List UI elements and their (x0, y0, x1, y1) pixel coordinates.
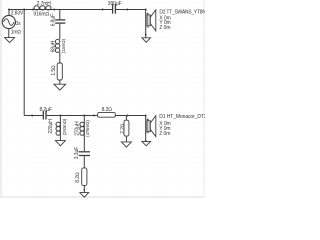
svg-text:2.7mH: 2.7mH (37, 1, 52, 7)
svg-text:D1 HT_Monacor_DT25: D1 HT_Monacor_DT25 (159, 114, 205, 120)
svg-text:Z 0m: Z 0m (159, 25, 170, 31)
svg-text:6.8µF: 6.8µF (51, 14, 57, 26)
svg-text:Z 0m: Z 0m (159, 131, 170, 137)
svg-text:220µH: 220µH (48, 119, 54, 134)
svg-text:0s: 0s (15, 21, 21, 27)
svg-text:2.2Ω: 2.2Ω (120, 123, 126, 134)
svg-text:(13mΩ): (13mΩ) (61, 39, 66, 54)
svg-text:1.5Ω: 1.5Ω (51, 65, 57, 76)
svg-text:8.2Ω: 8.2Ω (102, 107, 113, 113)
svg-text:916mΩ: 916mΩ (33, 11, 49, 17)
svg-text:270µH: 270µH (74, 121, 80, 136)
svg-text:390µF: 390µF (108, 1, 122, 7)
svg-text:1mΩ: 1mΩ (11, 30, 22, 36)
svg-text:68µH: 68µH (50, 40, 56, 52)
svg-text:8.2Ω: 8.2Ω (75, 172, 81, 183)
svg-text:8.2µF: 8.2µF (40, 107, 52, 113)
svg-text:3.3µF: 3.3µF (74, 147, 80, 159)
svg-text:(478mΩ): (478mΩ) (85, 120, 90, 137)
svg-text:(293mΩ): (293mΩ) (62, 118, 67, 135)
svg-text:2.83V: 2.83V (11, 10, 24, 16)
